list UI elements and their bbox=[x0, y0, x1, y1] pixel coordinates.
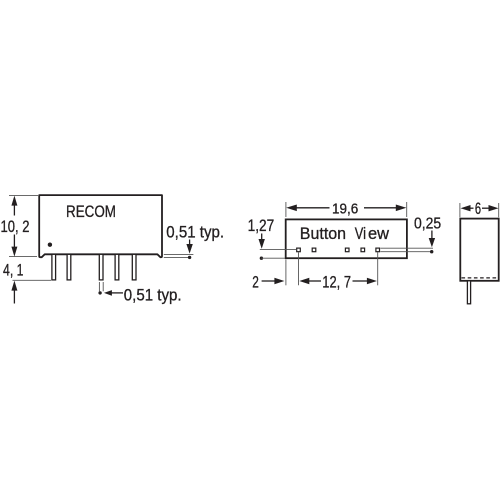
svg-text:Button: Button bbox=[300, 224, 346, 243]
svg-text:2: 2 bbox=[252, 273, 259, 291]
dimension 0,25: reference lines bbox=[380, 248, 433, 252]
svg-text:Vi: Vi bbox=[355, 224, 366, 243]
bottom view: pin pad 2 bbox=[312, 248, 316, 252]
dimension 4,1: extension line bbox=[13, 279, 52, 281]
left view: pin 3 bbox=[99, 254, 103, 280]
dimension 1,27: dot and leader at body bottom bbox=[260, 257, 263, 260]
dimension 0,51 pin width: extension lines bbox=[99, 282, 103, 291]
dimension 6: arrowheads and line bbox=[461, 205, 471, 211]
dimension 10,2: arrowheads bbox=[11, 196, 17, 206]
dimension 0,51 pin width: arrow bbox=[104, 290, 112, 296]
dimension 12,7: arrows bbox=[299, 278, 309, 284]
side view: dashed standoff line bbox=[462, 277, 498, 279]
dimension 0,25: arrow bbox=[431, 231, 433, 240]
svg-text:4, 1: 4, 1 bbox=[3, 261, 24, 279]
left view: pin 2 bbox=[67, 254, 71, 280]
dimension 0,51 standoff: reference lines bbox=[164, 255, 194, 258]
svg-text:10, 2: 10, 2 bbox=[1, 218, 30, 236]
dimension 2: extension line bbox=[285, 260, 287, 286]
bottom view: pin pad 4 bbox=[345, 248, 349, 252]
bottom view: package body bbox=[286, 219, 407, 258]
svg-text:6: 6 bbox=[475, 200, 481, 218]
svg-text:19,6: 19,6 bbox=[332, 200, 358, 217]
bottom view: pin pad 6 bbox=[376, 248, 380, 252]
dimension 19,6: extension lines bbox=[286, 202, 407, 217]
svg-text:12, 7: 12, 7 bbox=[322, 274, 351, 292]
left view: pin 4 bbox=[115, 254, 119, 280]
dimension 2: arrow bbox=[262, 280, 277, 282]
dimension 1,27: arrow bbox=[261, 234, 263, 241]
left view: pin 1 marker dot bbox=[48, 243, 52, 247]
svg-text:0,25: 0,25 bbox=[414, 215, 441, 232]
dimension 0,51 pin width: dot bbox=[98, 291, 101, 294]
dimension 12,7: extension lines bbox=[299, 252, 378, 285]
dimension 6: extension lines bbox=[460, 203, 499, 217]
svg-text:1,27: 1,27 bbox=[248, 217, 275, 235]
left view: pin 1 bbox=[52, 254, 56, 280]
left view: pin 5 bbox=[132, 254, 136, 280]
svg-text:0,51 typ.: 0,51 typ. bbox=[124, 287, 182, 305]
dimension 4,1: arrow bbox=[11, 281, 17, 291]
dimension 10,2: extension lines bbox=[9, 195, 38, 256]
dimension 0,51 standoff: dot bbox=[188, 256, 191, 259]
side view: package body bbox=[460, 219, 498, 281]
svg-text:ew: ew bbox=[368, 224, 390, 243]
bottom view: pin pad 1 bbox=[297, 248, 301, 252]
side view: pin bbox=[467, 281, 470, 304]
svg-text:0,51 typ.: 0,51 typ. bbox=[166, 223, 224, 241]
svg-text:RECOM: RECOM bbox=[66, 202, 116, 221]
dimension 19,6: arrowheads and line bbox=[286, 205, 297, 212]
dimension 0,51 standoff: arrow bbox=[189, 240, 191, 246]
dimension 0,25: dot bbox=[430, 250, 433, 253]
dimension 10,2: dimension line bbox=[13, 198, 15, 254]
left view: package body bbox=[39, 195, 162, 257]
bottom view: pin pad 5 bbox=[361, 248, 365, 252]
dimension 1,27: leader to pad row bbox=[260, 248, 297, 250]
